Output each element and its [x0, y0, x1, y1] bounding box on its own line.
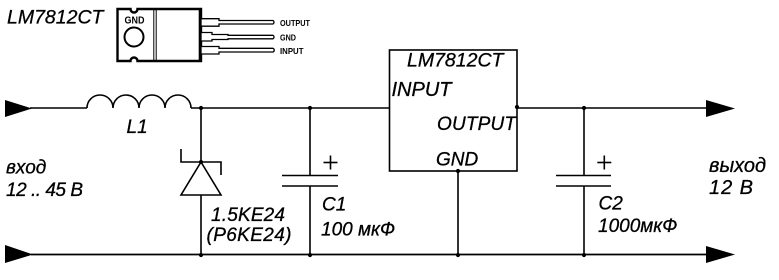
svg-text:12 .. 45 В: 12 .. 45 В: [6, 180, 83, 201]
wire: C2 to bottom rail: [583, 186, 585, 255]
svg-text:1.5KE24: 1.5KE24: [211, 205, 285, 226]
svg-text:LM7812CT: LM7812CT: [7, 7, 106, 29]
svg-text:100 мкФ: 100 мкФ: [321, 220, 395, 241]
node: GND pin at box: [456, 169, 460, 173]
capacitor C2: [556, 176, 611, 187]
input arrow (bottom rail): [5, 245, 33, 263]
pin 3 INPUT lead: [201, 47, 274, 55]
svg-text:L1: L1: [127, 117, 148, 138]
output arrow (top rail): [706, 100, 735, 117]
C1 polarity +: [324, 156, 338, 170]
wire: top rail to diode: [200, 108, 202, 162]
svg-text:GND: GND: [280, 32, 296, 42]
wire: input arrow to inductor: [30, 107, 87, 109]
wire: top rail to C1: [309, 108, 311, 176]
node: GND at bottom rail: [456, 253, 460, 257]
diode D1 TVS 1.5KE24: [181, 149, 221, 195]
node: D1 bottom junction: [199, 253, 203, 257]
capacitor C1: [282, 176, 338, 187]
node: C1 bottom junction: [308, 253, 312, 257]
svg-text:(P6KE24): (P6KE24): [207, 225, 292, 246]
wire: C1 to bottom rail: [309, 186, 311, 255]
input arrow (top rail): [5, 100, 32, 117]
svg-text:C2: C2: [599, 194, 624, 215]
node: diode top junction: [199, 160, 203, 164]
package mounting hole: [125, 28, 144, 47]
svg-text:INPUT: INPUT: [392, 79, 454, 101]
svg-text:OUTPUT: OUTPUT: [280, 18, 311, 28]
pin 1 OUTPUT lead: [201, 19, 274, 27]
IC U1 LM7812CT TO-220 package body: [118, 9, 202, 61]
svg-text:OUTPUT: OUTPUT: [437, 114, 517, 135]
wire: diode to bottom rail: [200, 195, 202, 255]
pin 2 GND lead: [201, 33, 274, 42]
node: L1 / D1 junction: [199, 106, 203, 110]
node: C2 bottom junction: [582, 253, 586, 257]
bottom rail wire: [31, 254, 707, 256]
wire: regulator GND pin down: [457, 171, 459, 255]
svg-text:GND: GND: [125, 16, 145, 27]
wire: top rail to C2: [583, 108, 585, 176]
svg-text:GND: GND: [436, 150, 479, 171]
svg-text:1000мкФ: 1000мкФ: [598, 216, 677, 237]
node: regulator output pin: [515, 105, 519, 109]
svg-text:выход: выход: [709, 155, 766, 177]
node: C1 top junction: [308, 106, 312, 110]
C2 polarity +: [597, 156, 611, 170]
svg-text:C1: C1: [322, 195, 346, 216]
wire: inductor to regulator input: [191, 107, 390, 109]
node: C2 top junction: [582, 106, 586, 110]
svg-text:INPUT: INPUT: [280, 46, 304, 56]
inductor L1: [87, 95, 191, 108]
svg-text:LM7812CT: LM7812CT: [407, 50, 506, 72]
svg-text:12 В: 12 В: [709, 177, 753, 199]
regulator U1 LM7812CT box: [390, 50, 518, 171]
output arrow (bottom rail): [706, 246, 735, 263]
svg-text:вход: вход: [6, 158, 46, 179]
wire: regulator output to output arrow: [517, 107, 707, 109]
